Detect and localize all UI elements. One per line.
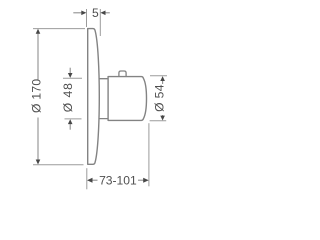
hub (sleeve between plate and handle) (99, 79, 108, 119)
svg-text:73-101: 73-101 (99, 174, 137, 188)
thermostat handle (knob, side view) (108, 77, 146, 121)
dim O170: top arrow (36, 29, 41, 34)
dim 73-101: right arrow (143, 178, 149, 183)
dim O54: bottom extension line (150, 120, 167, 122)
svg-text:5: 5 (92, 6, 99, 20)
dim O54: top arrow (160, 76, 165, 81)
dim 5: right arrow (105, 12, 110, 14)
dim O48: bottom extension line (65, 118, 82, 120)
dim O170: bottom extension line (33, 164, 84, 166)
dim O170: dimension line (37, 32, 39, 80)
dim O48: bottom arrow stub (69, 124, 71, 130)
escutcheon plate (side profile) (88, 29, 100, 165)
dim 5: left extension line (86, 9, 88, 27)
dim 5: right extension line (99, 9, 101, 36)
svg-text:Ø 54: Ø 54 (152, 84, 166, 112)
safety stop button on handle (119, 71, 126, 76)
dim O54: dimension line (162, 79, 164, 84)
dim 73-101: right extension line (148, 123, 150, 186)
dim O54: top extension line (150, 75, 167, 77)
dim O170: bottom arrow (36, 160, 41, 165)
dim O48: top extension line (63, 77, 82, 79)
dim 5: left arrow (73, 12, 82, 14)
dim 73-101: left extension line (86, 168, 88, 189)
dim 73-101: dimension line (92, 179, 98, 181)
svg-text:Ø 170: Ø 170 (30, 79, 44, 113)
svg-text:Ø 48: Ø 48 (61, 82, 75, 112)
dim O170: top extension line (33, 28, 85, 30)
dim O48: top arrow stub (69, 68, 71, 74)
dim O54: bottom arrow (160, 116, 165, 121)
dim 73-101: left arrow (87, 178, 93, 183)
